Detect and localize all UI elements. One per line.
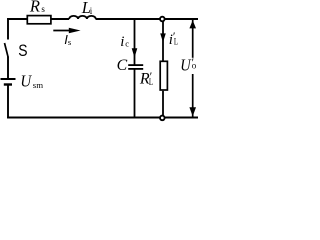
wire left upper (corner down to switch)	[7, 18, 9, 39]
voltage arrow U'o line upper segment	[192, 20, 194, 58]
wire top rail (source top-left corner to right end)	[7, 18, 69, 20]
svg-text:c: c	[125, 39, 129, 49]
voltage arrow U'o lower arrowhead (down)	[189, 107, 196, 116]
voltage arrow U'o line lower segment	[192, 74, 194, 117]
wire left lower (battery to bottom corner)	[7, 86, 9, 119]
battery Usm short plate	[4, 83, 12, 85]
current arrow ic (arrowhead on capacitor branch)	[132, 48, 138, 57]
switch S blade	[5, 43, 9, 58]
svg-text:i: i	[120, 34, 124, 50]
svg-text:o: o	[192, 61, 197, 71]
node junction top (open dot)	[160, 17, 165, 22]
wire load branch upper	[162, 19, 164, 61]
inductor Li (three humps)	[69, 16, 96, 19]
svg-text:L: L	[149, 77, 153, 87]
node junction bottom (open dot)	[160, 116, 165, 121]
wire left middle (switch to battery)	[7, 57, 9, 79]
wire load branch lower	[162, 91, 164, 118]
svg-text:L: L	[174, 37, 178, 47]
svg-text:U: U	[20, 73, 32, 91]
resistor Rs	[27, 16, 51, 24]
battery Usm long plate	[1, 78, 16, 80]
current arrow i'L (arrowhead on load branch)	[160, 33, 166, 42]
svg-text:s: s	[41, 4, 45, 14]
svg-text:C: C	[117, 57, 128, 74]
resistor R'L	[160, 61, 167, 90]
current arrow Is	[53, 30, 70, 32]
capacitor C top plate	[128, 64, 143, 66]
svg-text:U: U	[180, 56, 192, 74]
wire capacitor branch lower	[134, 70, 136, 119]
svg-text:sm: sm	[33, 80, 43, 90]
wire top rail right of inductor	[96, 18, 199, 20]
voltage arrow U'o upper arrowhead (up)	[189, 20, 196, 28]
capacitor C bottom plate	[128, 68, 143, 70]
wire capacitor branch upper	[134, 19, 136, 66]
svg-text:S: S	[18, 42, 27, 61]
svg-text:s: s	[68, 37, 71, 47]
wire bottom rail	[7, 117, 198, 119]
svg-text:R: R	[29, 0, 40, 16]
